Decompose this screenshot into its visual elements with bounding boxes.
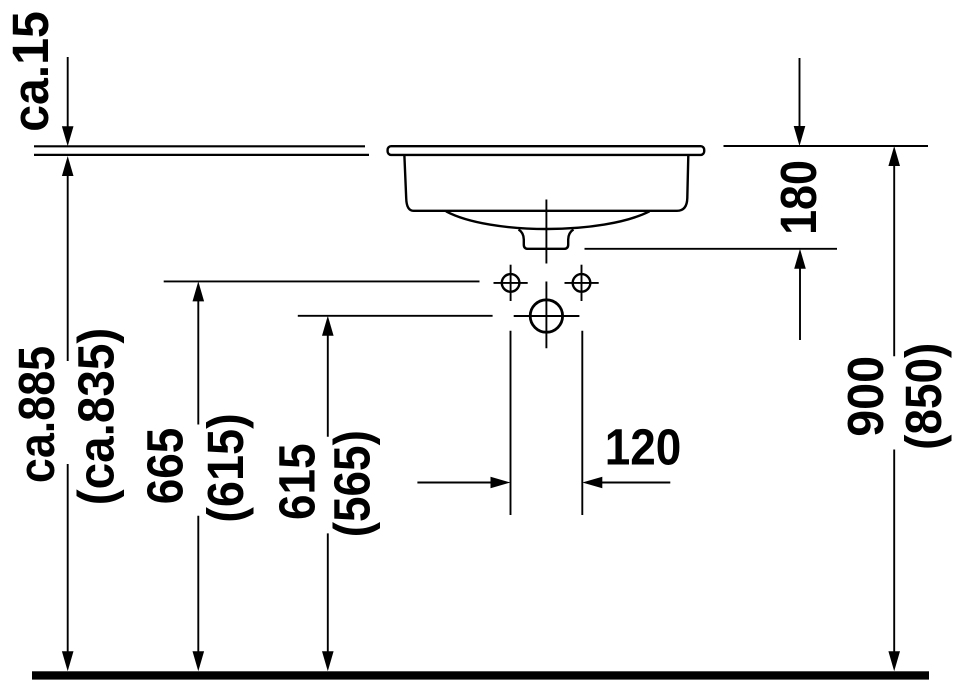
left faucet hole crosshair horizontal [494,282,528,284]
svg-text:(615): (615) [198,413,254,523]
dimension ca.885 upper arrowhead [62,156,74,176]
dimension 120 left extension line [510,331,512,515]
svg-text:900: 900 [837,356,894,437]
washbasin bowl underside arc [446,211,650,229]
countertop level extension line (right of basin) [724,145,929,147]
dimension 120 left arrow line [417,482,492,484]
right faucet hole crosshair horizontal [565,282,599,284]
dimension 900 lower arrowhead [888,651,900,671]
left faucet hole crosshair vertical [510,265,512,301]
dimension 900 upper arrowhead [888,146,900,166]
dimension 615 line lower segment [327,533,329,653]
dimension 615 upper arrowhead [322,316,334,336]
dimension 180 lower leader line [799,267,801,340]
countertop bottom line (left of basin) [34,154,369,156]
svg-text:615: 615 [269,443,326,520]
svg-text:ca.15: ca.15 [2,11,60,132]
dimension ca.885 lower arrowhead [62,651,74,671]
dimension 900 line lower segment [893,450,895,654]
dimension 180 lower arrowhead [794,249,806,269]
vertical centre axis line (upper segment) [545,200,547,264]
dimension ca.15 arrowhead [62,126,74,146]
dimension 665 line upper segment [197,299,199,425]
svg-text:665: 665 [137,428,194,505]
drain trap outlet [519,230,574,249]
washbasin rim [388,146,705,155]
dimension 665 upper arrowhead [193,281,205,301]
svg-text:ca.885: ca.885 [9,346,65,483]
svg-text:180: 180 [772,160,828,235]
dimension 120 left arrowhead [491,477,511,489]
left faucet hole circle [502,274,520,292]
svg-text:120: 120 [605,419,682,476]
dimension 180 upper leader line [799,58,801,128]
drain hole crosshair horizontal [514,315,580,317]
dimension 120 right arrowhead [582,477,602,489]
dimension 615 line upper segment [327,334,329,437]
dimension 665 lower arrowhead [193,651,205,671]
dimension reference line at trap outlet level (180 bottom) [585,248,838,250]
dimension 180 upper arrowhead [794,126,806,146]
vertical centre axis line (lower segment through drain hole) [545,282,547,349]
dimension 615 lower arrowhead [322,651,334,671]
drain hole circle [530,300,562,332]
svg-text:(565): (565) [324,430,381,537]
dimension ca.885 line upper segment [67,174,69,361]
countertop top line (left of basin) [34,145,365,147]
dimension 900 line upper segment [893,164,895,356]
dimension 120 right arrow line [601,482,670,484]
dimension 120 right extension line [581,331,583,515]
dimension 665 line lower segment [197,516,199,653]
washbasin body outline [404,156,688,211]
floor line [32,671,929,679]
dimension reference line at faucet hole level (665) [164,280,480,282]
dimension ca.15 leader line [67,57,69,128]
svg-text:(ca.835): (ca.835) [68,328,125,506]
svg-text:(850): (850) [896,343,953,450]
right faucet hole crosshair vertical [581,265,583,301]
right faucet hole circle [573,274,591,292]
dimension ca.885 line lower segment [67,464,69,653]
dimension reference line at drain level (615) [298,315,493,317]
